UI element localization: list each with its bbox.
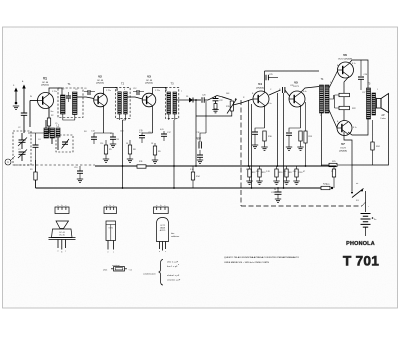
svg-text:2m: 2m	[96, 106, 99, 108]
wire V1 collector	[49, 88, 62, 95]
capacitor C22	[215, 96, 217, 99]
svg-text:R2: R2	[51, 115, 53, 117]
pinout top view 2	[104, 207, 116, 214]
resistor R2	[47, 118, 50, 126]
dashed supply bus	[241, 205, 362, 207]
wire T1 to V2 base	[77, 97, 94, 99]
resistor R9	[153, 146, 156, 155]
capacitor C21	[199, 152, 201, 155]
svg-text:b: b	[61, 252, 62, 254]
svg-text:8.4v: 8.4v	[303, 91, 307, 93]
svg-text:V6: V6	[343, 53, 347, 57]
svg-text:OC72 (2N408): OC72 (2N408)	[338, 58, 352, 60]
svg-text:(2N414): (2N414)	[145, 83, 153, 85]
ground R5	[103, 159, 109, 162]
transistor V1	[38, 93, 54, 109]
svg-text:e: e	[107, 252, 108, 254]
wire V1 emitter	[48, 107, 50, 118]
svg-text:saldature: saldature	[171, 235, 180, 238]
wire V7 emitter to switch	[344, 132, 352, 192]
T4 secondary coil	[325, 85, 329, 113]
svg-text:7: 7	[181, 91, 182, 93]
capacitor C20	[202, 97, 204, 103]
svg-text:e: e	[156, 205, 157, 207]
svg-text:0,05: 0,05	[110, 133, 114, 135]
ground R18	[297, 147, 303, 150]
svg-text:e: e	[159, 251, 160, 253]
wire V7 collector	[348, 118, 368, 135]
transistor V7	[337, 121, 352, 136]
wire switch to battery	[365, 191, 367, 212]
transistor V4	[253, 91, 269, 107]
wire T3 bottom	[169, 114, 175, 120]
antenna A1	[15, 90, 17, 104]
svg-text:0,05: 0,05	[160, 129, 164, 131]
svg-text:47: 47	[303, 171, 305, 173]
capacitor C17	[163, 131, 165, 134]
wire V3 emitter	[152, 106, 154, 134]
bus ground rail	[95, 165, 336, 167]
svg-text:R3: R3	[30, 169, 32, 171]
svg-text:OC72: OC72	[340, 147, 346, 149]
svg-text:C2: C2	[18, 127, 20, 129]
svg-text:QUESTO TELAIO FUNZIONA A PRESA: QUESTO TELAIO FUNZIONA A PRESA CON FILTR…	[224, 256, 299, 259]
wire V7 emitter	[343, 110, 345, 121]
svg-text:OC 45: OC 45	[146, 80, 153, 82]
capacitor C13	[94, 132, 112, 134]
battery B1	[361, 214, 371, 228]
capacitor C10	[79, 166, 81, 171]
svg-text:OC71: OC71	[108, 228, 113, 230]
svg-text:8.7v: 8.7v	[352, 63, 356, 65]
svg-text:100: 100	[293, 171, 296, 173]
neutralizing capacitor C8	[88, 90, 90, 95]
AGC dashed link	[14, 164, 95, 166]
wire V6 collector	[349, 60, 368, 88]
variable capacitor C2	[19, 140, 26, 142]
wire T2 bottom	[120, 114, 126, 120]
svg-text:5+5: 5+5	[197, 139, 200, 141]
capacitor C1	[21, 113, 27, 115]
T2 primary coil	[118, 92, 122, 114]
svg-text:2m: 2m	[145, 106, 148, 108]
capacitor C4	[28, 132, 46, 134]
svg-text:T 701: T 701	[343, 253, 379, 268]
svg-text:D1: D1	[186, 96, 188, 98]
wire V2 emitter	[103, 106, 105, 134]
ground C30	[293, 181, 299, 184]
svg-text:1.75v: 1.75v	[106, 90, 111, 92]
svg-text:(2N412): (2N412)	[41, 85, 49, 87]
variable capacitor C6	[62, 142, 68, 144]
svg-text:e: e	[106, 205, 107, 207]
svg-text:c: c	[65, 205, 66, 207]
svg-text:R23: R23	[326, 184, 329, 186]
capacitor C25	[266, 75, 268, 80]
svg-text:V3: V3	[147, 75, 151, 79]
diode D1	[189, 98, 193, 103]
wire T4 to V6 base	[329, 71, 338, 88]
svg-text:elettrol. = µF: elettrol. = µF	[167, 274, 180, 277]
capacitor C26	[360, 60, 362, 76]
wire drop x122.5	[122, 120, 124, 188]
resistor R17	[286, 166, 288, 169]
wire V4 collector to supply	[265, 71, 320, 93]
svg-text:V1: V1	[43, 77, 47, 81]
svg-text:V4: V4	[258, 82, 262, 86]
wire T2 to V3 base	[127, 97, 142, 99]
svg-text:C27: C27	[362, 92, 365, 94]
wire det drop	[200, 101, 206, 135]
package OC72 bulb	[157, 218, 169, 242]
svg-text:AP: AP	[381, 114, 385, 117]
T1 tuning capacitor	[66, 96, 71, 98]
T4 primary coil	[320, 85, 324, 113]
svg-text:AC125: AC125	[160, 229, 166, 232]
svg-text:fino 1 = µF: fino 1 = µF	[167, 266, 178, 268]
T5 primary coil	[367, 88, 371, 119]
resistor R16	[263, 131, 266, 141]
wire T1 bottom	[63, 114, 75, 120]
svg-text:V7: V7	[341, 142, 345, 146]
resistor R3	[35, 160, 37, 172]
svg-text:c: c	[65, 251, 66, 253]
svg-text:PHONOLA: PHONOLA	[346, 241, 375, 247]
capacitor C19	[199, 135, 201, 142]
svg-text:560: 560	[283, 171, 286, 173]
svg-text:c: c	[165, 251, 166, 253]
bus supply rail	[36, 187, 331, 189]
package OC71 tube	[106, 221, 116, 241]
ground C24	[286, 147, 292, 150]
T1 secondary coil	[73, 92, 78, 115]
ground R13	[256, 181, 262, 184]
svg-text:2m: 2m	[51, 111, 54, 113]
resistor R26	[333, 166, 335, 169]
resistor R19	[305, 102, 307, 131]
speaker AP	[377, 99, 382, 109]
wire T4 bottom	[321, 113, 323, 166]
svg-text:3: 3	[330, 82, 331, 84]
svg-text:5.5v: 5.5v	[268, 103, 272, 105]
oscillator coil box	[56, 135, 73, 152]
inductor L1	[44, 128, 49, 138]
svg-text:1.75v: 1.75v	[52, 91, 57, 93]
wire V5 collector to T4	[301, 87, 320, 93]
svg-text:R12: R12	[246, 169, 249, 171]
wire T3 to diode	[177, 99, 190, 101]
svg-text:0,05: 0,05	[139, 132, 143, 134]
svg-text:c: c	[164, 205, 165, 207]
svg-text:C8: C8	[84, 88, 86, 90]
svg-text:C16: C16	[148, 132, 151, 134]
svg-text:OC 44: OC 44	[42, 82, 49, 84]
wire T5 secondary to speaker	[376, 98, 377, 108]
svg-text:R4: R4	[84, 131, 86, 133]
resistor R8	[128, 145, 131, 154]
svg-text:c: c	[113, 205, 114, 207]
T2 secondary coil	[124, 92, 128, 114]
volume potentiometer R15	[222, 97, 232, 100]
T3 primary coil	[167, 92, 171, 114]
svg-text:C12: C12	[133, 88, 136, 90]
wire V4 emitter	[264, 106, 266, 129]
variable capacitor C3	[19, 152, 26, 154]
svg-text:C7: C7	[62, 89, 64, 91]
svg-text:C28: C28	[290, 85, 293, 87]
svg-text:OC71: OC71	[293, 86, 299, 88]
pinout top view 3	[154, 207, 169, 214]
wire V2 collector	[104, 88, 118, 95]
svg-text:b: b	[61, 205, 62, 207]
ground R20	[273, 181, 279, 184]
svg-text:V2: V2	[98, 75, 102, 79]
wire V6 emitter	[344, 77, 349, 94]
resistor R23	[321, 186, 330, 189]
ground C23	[252, 145, 258, 148]
resistor R13	[259, 166, 261, 169]
pinout top view 1	[55, 207, 69, 214]
svg-text:b: b	[160, 205, 161, 207]
scan noise filter def	[0, 0, 1, 1]
svg-text:1.75v: 1.75v	[155, 90, 160, 92]
wire bias x277.5	[277, 93, 279, 166]
wire drop x174	[173, 120, 175, 188]
wire bias x283.5	[283, 93, 285, 188]
svg-text:(2N408): (2N408)	[339, 150, 347, 152]
resistor R20	[276, 166, 278, 169]
svg-text:c: c	[113, 252, 114, 254]
svg-text:1: 1	[117, 89, 118, 91]
wire volume wiper to V4	[233, 99, 253, 105]
svg-text:ohm: ohm	[103, 269, 107, 271]
svg-text:condensatori: condensatori	[143, 273, 156, 276]
ground R9	[152, 160, 158, 163]
wire T4 to V7 base	[329, 110, 337, 128]
capacitor C24	[289, 128, 301, 132]
svg-text:C4: C4	[38, 139, 40, 141]
svg-text:C3: C3	[18, 149, 20, 151]
capacitor C28 coupling	[269, 90, 281, 95]
transistor V3	[142, 93, 156, 107]
wire AGC return	[196, 111, 232, 116]
capacitor C15	[142, 132, 153, 134]
svg-text:C9: C9	[75, 89, 77, 91]
T5 secondary coil	[372, 93, 376, 115]
resistor C30	[296, 166, 298, 169]
tuning gang box	[13, 131, 31, 165]
resistor R22	[339, 106, 350, 109]
capacitor C11	[112, 133, 114, 137]
wire bias x248	[248, 100, 250, 166]
node ground A1	[13, 106, 19, 109]
svg-text:C14: C14	[120, 131, 123, 133]
svg-text:8.7v: 8.7v	[353, 127, 357, 129]
capacitor C29	[277, 188, 279, 192]
svg-text:C5: C5	[55, 123, 57, 125]
T1 primary coil	[61, 95, 66, 114]
wire V3 collector	[153, 88, 167, 95]
transistor V5	[289, 91, 305, 107]
ground C22	[212, 110, 218, 113]
svg-text:C10: C10	[74, 167, 77, 169]
wire T4 center tap	[329, 95, 334, 99]
svg-text:ONDE MEDIE 520 ÷ 1620 kc/s OND: ONDE MEDIE 520 ÷ 1620 kc/s ONDE CORTE	[224, 261, 270, 264]
svg-text:ceramici = pF: ceramici = pF	[167, 278, 181, 281]
svg-text:2: 2	[320, 115, 321, 117]
resistor R25	[329, 163, 337, 166]
legend brace	[159, 260, 164, 286]
svg-text:e: e	[57, 251, 58, 253]
wire speaker return	[352, 113, 389, 166]
neutralizing capacitor C12	[137, 90, 139, 95]
transistor V6	[338, 62, 354, 78]
svg-text:(2N413): (2N413)	[96, 83, 104, 85]
svg-text:b: b	[110, 205, 111, 207]
wire bias divider	[335, 95, 340, 108]
switch S1	[351, 192, 353, 194]
resistor R12	[249, 166, 251, 169]
T3 secondary coil	[173, 92, 177, 114]
junction dots	[122, 165, 124, 167]
resistor R11	[137, 165, 146, 168]
ground R17	[283, 181, 289, 184]
svg-text:V5: V5	[294, 81, 298, 85]
capacitor C23	[255, 128, 265, 132]
svg-text:(2N406): (2N406)	[256, 87, 264, 89]
svg-text:OC 45: OC 45	[59, 235, 66, 237]
svg-text:1: 1	[377, 89, 378, 91]
resistor R5	[104, 145, 107, 154]
transistor V2	[94, 93, 108, 107]
svg-text:120: 120	[100, 143, 103, 145]
ground R8	[127, 159, 133, 162]
resistor R21	[339, 93, 350, 96]
wire V1 base	[30, 100, 38, 102]
svg-text:e: e	[58, 205, 59, 207]
svg-text:4: 4	[124, 89, 125, 91]
svg-text:3 ohm: 3 ohm	[380, 118, 386, 120]
node 1 tag	[5, 159, 11, 165]
resistor R14	[192, 166, 194, 172]
wire bias x251.5	[251, 104, 253, 188]
package OC44 top-hat	[56, 221, 69, 229]
wire V5 emitter	[300, 106, 302, 129]
svg-text:OC 45: OC 45	[97, 80, 104, 82]
dashed net x241	[240, 100, 242, 206]
resistor R24	[372, 120, 374, 142]
antenna A2	[23, 87, 25, 113]
resistor R18	[299, 131, 302, 141]
ground R12	[246, 181, 252, 184]
ground C29	[275, 199, 281, 202]
ground R16	[261, 147, 267, 150]
svg-text:50: 50	[274, 189, 276, 191]
